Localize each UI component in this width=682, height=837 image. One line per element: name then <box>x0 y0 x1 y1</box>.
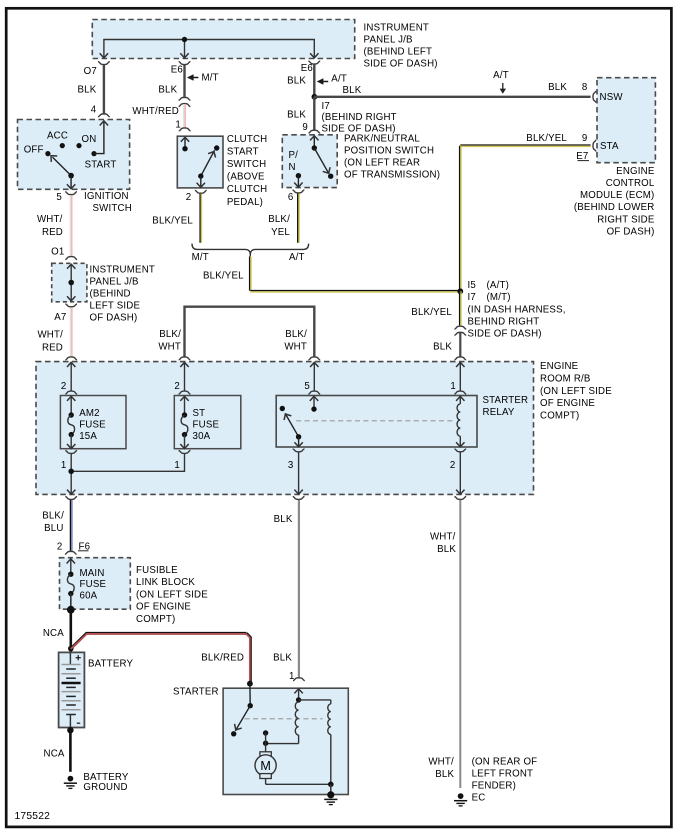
wire coil to motor node <box>266 743 299 745</box>
arrow into R/B (BLK/WHT left) <box>180 362 188 367</box>
clutch entry wire <box>181 137 189 149</box>
svg-text:COMPT): COMPT) <box>136 614 175 625</box>
wire R/B entry to relay 1 <box>459 362 461 390</box>
wire BLK/YEL ECM STA horizontal <box>460 145 590 146</box>
label BLK (to NSW) <box>548 82 567 93</box>
label BLK (E6 wire) <box>158 85 177 96</box>
svg-text:GROUND: GROUND <box>83 782 127 793</box>
connector ECM pin 9 <box>593 140 596 152</box>
connector E6 (A/T) <box>308 61 320 64</box>
wire BLK/YEL vertical to I5 junction <box>460 146 461 292</box>
connector R/B top (BLK pin1) <box>454 357 466 360</box>
label 1 (relay) <box>450 381 456 392</box>
svg-text:ENGINE: ENGINE <box>540 361 579 372</box>
svg-text:(BEHIND LEFT: (BEHIND LEFT <box>364 46 433 57</box>
svg-text:SWITCH: SWITCH <box>93 203 132 214</box>
contact dot ACC <box>60 143 65 148</box>
connector ST pin 1 <box>179 451 191 454</box>
svg-text:3: 3 <box>288 460 294 471</box>
svg-text:IGNITION: IGNITION <box>84 191 129 202</box>
junction F6 bottom <box>67 606 75 614</box>
contact dot START <box>91 151 96 156</box>
svg-text:SWITCH: SWITCH <box>227 159 266 170</box>
label 5 (relay) <box>304 381 310 392</box>
svg-text:CLUTCH: CLUTCH <box>227 134 268 145</box>
svg-text:BLK/: BLK/ <box>268 214 290 225</box>
svg-text:BLU: BLU <box>44 523 63 534</box>
svg-text:MODULE (ECM): MODULE (ECM) <box>580 190 655 201</box>
wire BLK inline to R/B <box>459 333 461 357</box>
motor M <box>255 752 276 779</box>
svg-text:2: 2 <box>57 542 63 553</box>
label 2 (clutch) <box>186 192 192 203</box>
svg-text:FUSE: FUSE <box>79 419 106 430</box>
clutch pivot to pin 2 <box>197 176 205 187</box>
svg-text:OF TRANSMISSION): OF TRANSMISSION) <box>344 169 440 180</box>
svg-text:ST: ST <box>193 408 206 419</box>
svg-text:1: 1 <box>174 460 180 471</box>
label BLK (starter) <box>273 653 292 664</box>
arrow M/T marker <box>187 74 199 80</box>
starter left coil <box>295 702 298 744</box>
starter solenoid node dot <box>296 697 301 702</box>
label 4 <box>91 104 97 115</box>
ST fuse box <box>174 396 241 449</box>
label START <box>85 159 117 170</box>
svg-text:2: 2 <box>174 381 180 392</box>
wire to starter ground <box>330 784 332 795</box>
svg-text:OF ENGINE: OF ENGINE <box>136 602 191 613</box>
starter dashed line <box>245 718 323 720</box>
label park/neutral switch <box>344 134 440 181</box>
svg-text:(ON LEFT REAR: (ON LEFT REAR <box>344 158 420 169</box>
connector A7 <box>65 304 77 307</box>
svg-text:8: 8 <box>582 82 588 93</box>
ST exit wire <box>180 435 188 449</box>
label ACC <box>47 131 68 142</box>
label O7 <box>84 66 97 77</box>
svg-text:NSW: NSW <box>600 92 624 103</box>
arrow into R/B (BLK/WHT right) <box>310 362 318 367</box>
label 9 (STA) <box>582 133 588 144</box>
inline connector (WHT/RED) <box>179 97 191 106</box>
svg-text:EC: EC <box>472 793 486 804</box>
relay blade dot <box>296 434 301 439</box>
wire E6 to inline connector <box>183 65 185 97</box>
svg-text:SIDE OF DASH): SIDE OF DASH) <box>468 329 542 340</box>
ignition blade <box>48 153 71 176</box>
svg-text:BLK: BLK <box>287 109 306 120</box>
wire battery to ground <box>69 730 72 772</box>
connector ST pin 2 <box>179 391 191 394</box>
svg-text:BLK: BLK <box>433 341 452 352</box>
starter ground <box>324 791 337 804</box>
label E6 (A/T) <box>301 63 313 74</box>
svg-text:BLK: BLK <box>287 75 306 86</box>
svg-text:(A/T): (A/T) <box>487 280 510 291</box>
label AM2 FUSE 15A <box>79 408 106 442</box>
connector relay pin 3 <box>293 449 305 452</box>
svg-text:15A: 15A <box>79 431 97 442</box>
starter blade end dot <box>231 731 236 736</box>
battery box <box>59 652 85 727</box>
connector AM2 pin 2 <box>65 391 77 394</box>
label A7 <box>54 312 66 323</box>
wire BLK/RED to starter <box>71 633 251 683</box>
clutch fixed contact dot <box>214 145 219 150</box>
connector F6 <box>65 551 77 554</box>
svg-text:(BEHIND RIGHT: (BEHIND RIGHT <box>322 112 397 123</box>
starter relay box <box>276 396 477 448</box>
svg-text:FENDER): FENDER) <box>472 781 516 792</box>
P/N entry wire <box>310 136 318 148</box>
label BLK/YEL (A/T wire) <box>268 214 290 238</box>
svg-text:STARTER: STARTER <box>173 687 219 698</box>
wire relay 2 to R/B bottom <box>456 452 464 494</box>
svg-text:COMPT): COMPT) <box>540 410 579 421</box>
wire contact to motor <box>265 733 267 752</box>
svg-text:I5: I5 <box>468 280 476 291</box>
label 2 (AM2) <box>61 381 67 392</box>
AM2 fuse box <box>60 396 126 449</box>
svg-text:I7: I7 <box>322 101 330 112</box>
svg-text:ROOM R/B: ROOM R/B <box>540 374 591 385</box>
label BLK/YEL (below I5) <box>411 307 452 318</box>
wire bus inside top J/B <box>104 40 314 58</box>
label E7 <box>576 151 589 162</box>
ignition pivot dot <box>68 173 74 179</box>
svg-text:BEHIND RIGHT: BEHIND RIGHT <box>468 316 540 327</box>
wire WHT/RED pin5 to O1 <box>70 195 71 256</box>
label I7 note <box>322 101 397 135</box>
connector R/B bottom (WHT/BLK) <box>454 497 466 500</box>
label instrument panel J/B (top) <box>364 23 438 70</box>
arrow into R/B (BLK pin1) <box>456 362 464 367</box>
svg-text:M: M <box>260 759 271 773</box>
wire O7 to pin 4 <box>103 65 105 114</box>
wire motor to ground bus <box>266 779 331 785</box>
connector AM2 pin 1 <box>65 451 77 454</box>
svg-text:BLK: BLK <box>437 544 456 555</box>
battery minus sign <box>77 722 80 724</box>
label NSW <box>600 92 624 103</box>
wire R/B entry to AM2 <box>70 362 72 390</box>
wire WHT/RED to clutch switch <box>184 104 185 128</box>
label BLK (junction horizontal) <box>343 85 362 96</box>
contact dot ON <box>76 143 81 148</box>
label E6 (M/T) <box>171 64 183 75</box>
label P/N <box>289 150 299 173</box>
label 6 <box>288 192 294 203</box>
svg-text:BLK/: BLK/ <box>285 329 307 340</box>
svg-text:BATTERY: BATTERY <box>88 658 134 669</box>
junction BLK/RED tap <box>68 646 74 652</box>
wire R/B entry to ST <box>184 362 186 390</box>
label 5 <box>56 192 62 203</box>
arrow into R/B (WHT/RED) <box>67 362 75 367</box>
svg-text:30A: 30A <box>193 431 211 442</box>
svg-text:175522: 175522 <box>15 811 51 822</box>
svg-text:2: 2 <box>186 192 192 203</box>
svg-text:O1: O1 <box>51 247 64 258</box>
P/N blade end dot <box>328 174 333 179</box>
svg-text:BLK/: BLK/ <box>159 329 181 340</box>
svg-text:PANEL J/B: PANEL J/B <box>90 276 139 287</box>
label BLK/WHT (left) <box>158 329 181 353</box>
svg-text:ENGINE: ENGINE <box>616 166 655 177</box>
label BATTERY GROUND <box>83 772 129 793</box>
wire BLK/YEL junction to inline connector <box>460 291 461 325</box>
engine room R/B box <box>36 362 534 495</box>
label BLK (to R/B pin1) <box>433 341 452 352</box>
label 2 (F6) <box>57 542 63 553</box>
connector R/B top (WHT/RED) <box>65 357 77 360</box>
contact dot OFF <box>45 151 50 156</box>
svg-text:STA: STA <box>600 141 619 152</box>
relay contact dot <box>280 406 285 411</box>
label A/T (marker) <box>331 73 347 84</box>
svg-text:ACC: ACC <box>47 131 68 142</box>
junction fuse outputs <box>68 469 74 475</box>
svg-text:WHT: WHT <box>158 342 181 353</box>
label WHT/RED <box>132 106 179 117</box>
junction I5 dot <box>457 288 463 294</box>
label engine room R/B <box>540 361 612 421</box>
svg-text:BLK/YEL: BLK/YEL <box>203 270 244 281</box>
svg-text:BLK: BLK <box>158 85 177 96</box>
fusible link block box <box>60 558 131 610</box>
relay blade to pin 3 <box>294 437 302 447</box>
svg-text:E6: E6 <box>301 63 313 74</box>
battery bottom dot <box>67 727 73 733</box>
svg-text:1: 1 <box>450 381 456 392</box>
label A/T with down arrow <box>493 70 509 94</box>
park/neutral position switch box <box>282 135 337 188</box>
connector R/B bottom (BLK starter) <box>293 497 305 500</box>
clutch blade <box>201 150 218 177</box>
svg-text:60A: 60A <box>80 591 98 602</box>
svg-text:RIGHT SIDE: RIGHT SIDE <box>597 214 655 225</box>
ignition switch box <box>18 120 130 190</box>
wire WHT/RED A7 to R/B <box>71 307 72 356</box>
label WHT/BLK (upper) <box>430 532 456 556</box>
label NCA (top) <box>43 628 64 639</box>
svg-text:A/T: A/T <box>331 73 347 84</box>
svg-text:AM2: AM2 <box>79 408 100 419</box>
svg-text:E6: E6 <box>171 64 183 75</box>
wire relay 3 to R/B bottom <box>294 452 302 494</box>
connector R/B bottom (BLK/BLU) <box>65 497 77 500</box>
brace joining M/T and A/T <box>192 244 309 257</box>
relay pin5 wire <box>310 396 318 409</box>
svg-text:PEDAL): PEDAL) <box>227 197 263 208</box>
connector O7 <box>98 62 110 65</box>
starter blade <box>232 706 250 732</box>
svg-text:O7: O7 <box>84 66 97 77</box>
svg-text:(IN DASH HARNESS,: (IN DASH HARNESS, <box>468 304 566 315</box>
connector R/B top (BLK/WHT left) <box>179 357 191 360</box>
wire BLK/BLU <box>71 500 72 551</box>
svg-text:RED: RED <box>42 227 63 238</box>
AM2 exit wire <box>67 435 75 449</box>
connector P/N pin 6 <box>293 190 305 193</box>
label WHT/RED (upper pair) <box>37 214 63 238</box>
relay dashed line <box>296 420 455 422</box>
wire WHT/BLK to EC <box>459 500 461 788</box>
diagram number 175522 <box>15 811 51 822</box>
svg-text:LEFT FRONT: LEFT FRONT <box>472 769 534 780</box>
wire BLK/WHT bridge <box>185 307 315 357</box>
svg-text:INSTRUMENT: INSTRUMENT <box>364 23 430 34</box>
starter contact dot lower <box>263 741 268 746</box>
svg-text:N: N <box>289 162 296 173</box>
connector pin 5 <box>65 192 77 195</box>
engine control module (ECM) box <box>597 78 655 163</box>
label clutch start switch <box>227 134 268 208</box>
svg-text:NCA: NCA <box>44 749 65 760</box>
label BLK/BLU <box>42 511 64 535</box>
battery + terminal stem <box>69 652 71 664</box>
svg-text:STARTER: STARTER <box>483 395 529 406</box>
wire junction to P/N switch <box>313 97 315 130</box>
svg-text:(M/T): (M/T) <box>487 292 511 303</box>
svg-text:A/T: A/T <box>493 70 509 81</box>
svg-text:BLK/YEL: BLK/YEL <box>411 307 452 318</box>
svg-text:NCA: NCA <box>43 628 64 639</box>
clutch pivot dot <box>198 173 203 178</box>
svg-text:MAIN: MAIN <box>80 568 105 579</box>
wire START to pin 4 <box>94 121 108 154</box>
svg-text:FUSIBLE: FUSIBLE <box>136 565 178 576</box>
arrow to E6 (M/T) <box>180 53 188 58</box>
svg-text:WHT: WHT <box>284 342 307 353</box>
arrow A/T marker <box>317 78 329 84</box>
connector ECM pin 8 <box>593 91 596 103</box>
label 3 <box>288 460 294 471</box>
label O1 <box>51 247 64 258</box>
label 1 (AM2) <box>61 460 67 471</box>
starter switch feed <box>249 684 251 706</box>
label STA <box>600 141 619 152</box>
svg-text:(ON REAR OF: (ON REAR OF <box>472 756 538 767</box>
starter entry arrow <box>294 689 302 700</box>
fuse MAIN element <box>67 572 74 597</box>
svg-text:A/T: A/T <box>289 252 305 263</box>
label STARTER <box>173 687 219 698</box>
P/N blade <box>314 148 332 175</box>
svg-text:BLK/YEL: BLK/YEL <box>526 133 567 144</box>
junction on top J/B bus <box>182 37 187 42</box>
svg-text:6: 6 <box>288 192 294 203</box>
wire pivot to pin 5 <box>67 176 75 189</box>
label F6 <box>78 542 90 553</box>
relay coil <box>456 396 464 447</box>
label 9 (P/N pin) <box>302 122 308 133</box>
starter pivot dot <box>248 703 253 708</box>
ground EC <box>454 793 467 806</box>
svg-text:START: START <box>227 147 259 158</box>
svg-text:START: START <box>85 159 117 170</box>
starter contact dot upper <box>263 730 268 735</box>
svg-text:BLK: BLK <box>273 653 292 664</box>
svg-text:BLK: BLK <box>343 85 362 96</box>
instrument panel J/B (top) box <box>92 20 354 59</box>
svg-text:BLK/YEL: BLK/YEL <box>152 215 193 226</box>
junction I7 dot <box>312 94 318 100</box>
wire NCA to battery <box>70 610 73 653</box>
clutch start switch box <box>177 136 223 188</box>
label EC note <box>472 756 538 803</box>
label IGNITION SWITCH <box>84 191 132 214</box>
label BLK (A/T wire lower) <box>287 109 306 120</box>
label OFF <box>24 144 44 155</box>
wire ST out to AM2 out <box>71 454 184 472</box>
label BLK/WHT (right) <box>284 329 307 353</box>
svg-text:FUSE: FUSE <box>193 419 220 430</box>
svg-text:1: 1 <box>175 119 181 130</box>
svg-text:9: 9 <box>582 133 588 144</box>
label 1 (ST) <box>174 460 180 471</box>
label BLK/RED <box>201 653 244 664</box>
svg-text:OF ENGINE: OF ENGINE <box>540 398 595 409</box>
svg-text:BLK: BLK <box>435 769 454 780</box>
svg-text:9: 9 <box>302 122 308 133</box>
starter box <box>223 688 348 794</box>
svg-text:OFF: OFF <box>24 144 44 155</box>
label 8 <box>582 82 588 93</box>
wire AM2 out down <box>67 454 75 495</box>
P/N input dot <box>312 145 317 150</box>
label BLK (O7 wire) <box>77 85 96 96</box>
label I5/I7 note <box>468 280 566 339</box>
svg-text:1: 1 <box>61 460 67 471</box>
battery plates <box>62 665 81 728</box>
inline connector (BLK) <box>454 326 466 335</box>
svg-text:BLK/: BLK/ <box>42 511 64 522</box>
svg-text:OF DASH): OF DASH) <box>607 226 655 237</box>
P/N output to pin 6 <box>294 176 302 187</box>
svg-text:LEFT SIDE: LEFT SIDE <box>90 300 141 311</box>
svg-text:BLK: BLK <box>548 82 567 93</box>
label 1 (starter) <box>289 671 295 682</box>
svg-text:INSTRUMENT: INSTRUMENT <box>90 264 156 275</box>
label BLK (A/T wire upper) <box>287 75 306 86</box>
svg-text:(ABOVE: (ABOVE <box>227 172 265 183</box>
label BLK/YEL (merged) <box>203 270 244 281</box>
svg-text:POSITION SWITCH: POSITION SWITCH <box>344 146 434 157</box>
svg-text:M/T: M/T <box>202 72 219 83</box>
J/B2 internal dot <box>68 280 74 286</box>
svg-text:P/: P/ <box>289 150 299 161</box>
connector relay pin 5 <box>308 391 320 394</box>
ST entry arrow <box>180 396 188 415</box>
svg-text:PANEL J/B: PANEL J/B <box>364 35 413 46</box>
svg-text:5: 5 <box>56 192 62 203</box>
clutch input dot <box>182 146 187 151</box>
J/B2 internal wire <box>67 264 75 301</box>
starter BLK/RED junction dot <box>247 681 253 687</box>
wire BLK/YEL M/T <box>200 194 201 243</box>
relay pin5 dot <box>311 406 316 411</box>
label BLK/YEL (M/T wire) <box>152 215 193 226</box>
wire BLK/YEL merged to I5 junction <box>250 256 461 292</box>
connector R/B top (BLK/WHT right) <box>308 357 320 360</box>
label NCA (bottom) <box>44 749 65 760</box>
label M/T (brace) <box>192 252 209 263</box>
junction motor/coil ground <box>328 782 334 788</box>
svg-text:CLUTCH: CLUTCH <box>227 184 268 195</box>
connector clutch pin 2 <box>195 190 207 193</box>
